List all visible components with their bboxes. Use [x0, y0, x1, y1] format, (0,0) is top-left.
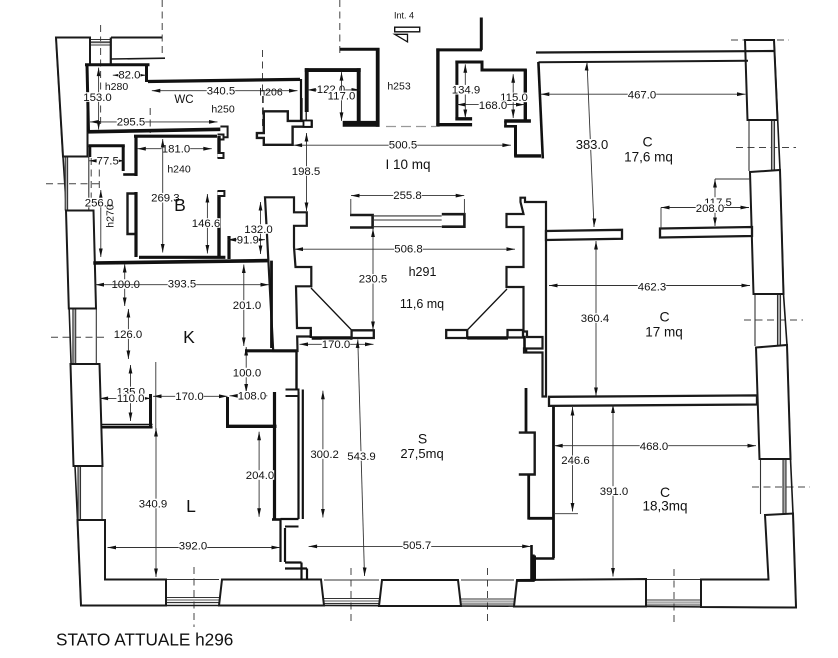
- extension line 246.6 bottom: [554, 513, 578, 515]
- dim 462.3: [549, 285, 750, 287]
- wall hall bottom right box B: [508, 330, 524, 338]
- window top WT1: [89, 41, 112, 43]
- vestibule bottom bar left: [455, 117, 472, 120]
- dim 393.5: [96, 284, 270, 286]
- svg-text:91.9: 91.9: [237, 234, 259, 246]
- axis dashed horizontal right y=487: [752, 486, 810, 488]
- wall K top: [93, 261, 268, 263]
- extension 255.8 left: [350, 199, 352, 215]
- dim 300.2: [322, 391, 324, 518]
- step to C17.6 vertical a: [504, 121, 507, 128]
- window right WR1: [748, 120, 750, 171]
- svg-text:L: L: [186, 496, 196, 516]
- wall L/S top bracket: [286, 390, 299, 397]
- wall B right top foot: [218, 191, 225, 196]
- axis dashed vertical x=150: [149, 108, 151, 133]
- dim 126.0: [127, 309, 129, 359]
- wall hall/S step vertical: [523, 336, 526, 349]
- dim 295.5: [90, 121, 218, 123]
- outer wall pillar top-right PR1: [745, 40, 778, 120]
- dim 543.9: [358, 340, 365, 577]
- jamb B top-right notch: [218, 135, 224, 140]
- window bottom W5: [324, 600, 379, 602]
- wall C17/C18.3: [549, 395, 757, 406]
- dim 340.9: [155, 428, 157, 577]
- wall K/hall bottom: [245, 349, 297, 352]
- svg-text:246.6: 246.6: [561, 455, 590, 467]
- jamb B top-right bar: [217, 136, 220, 158]
- outer wall pillar right PR2: [750, 170, 784, 294]
- svg-text:h240: h240: [167, 163, 191, 175]
- outer wall bottom pillar P7: [514, 579, 646, 607]
- entry porch left top bar: [340, 48, 380, 51]
- axis dashed vertical bottom x=194: [193, 567, 195, 627]
- jamb WC corridor end: [257, 111, 312, 145]
- wall h280 left: [87, 65, 89, 132]
- svg-text:181.0: 181.0: [162, 143, 191, 155]
- hall partition glazing lines: [373, 215, 442, 217]
- wall L top-left: [101, 424, 153, 426]
- dim 467.0: [541, 93, 746, 95]
- svg-text:153.0: 153.0: [83, 92, 112, 104]
- wall WC bottom jamb foot: [220, 127, 227, 138]
- window bottom W4: [166, 599, 219, 601]
- dim 383.0: [587, 62, 594, 227]
- svg-text:204.0: 204.0: [246, 470, 275, 482]
- axis dashed vertical top-left x=100: [100, 25, 102, 125]
- svg-text:C: C: [659, 309, 669, 325]
- svg-text:467.0: 467.0: [628, 89, 657, 101]
- svg-text:h253: h253: [387, 80, 411, 92]
- svg-text:295.5: 295.5: [117, 116, 146, 128]
- wall B left upper: [134, 137, 137, 176]
- dim 340.5: [152, 90, 298, 92]
- dim 108.0: [230, 395, 268, 397]
- wall C18.3 left jog: [534, 557, 555, 559]
- dim 468.0: [554, 445, 756, 447]
- svg-text:170.0: 170.0: [175, 391, 204, 403]
- svg-text:392.0: 392.0: [179, 541, 208, 553]
- axis dashed vertical closet b: [98, 158, 100, 192]
- axis dashed horizontal top-right y=40: [731, 39, 789, 41]
- wall L right: [273, 392, 276, 519]
- dim 256.0: [100, 190, 102, 257]
- outer wall corner bottom-right P8: [701, 514, 796, 608]
- svg-text:108.0: 108.0: [238, 391, 267, 403]
- window right WR3: [760, 459, 762, 514]
- svg-text:B: B: [174, 195, 186, 215]
- central wall hall-west: [265, 197, 311, 351]
- svg-text:h280: h280: [105, 81, 129, 93]
- dim 255.8: [351, 195, 464, 197]
- wall L/S part1: [297, 392, 299, 519]
- window left W3: [101, 466, 103, 520]
- vestibule bottom bar right: [504, 119, 531, 122]
- outer wall pillar right PR3: [756, 345, 791, 459]
- dim 91.9: [228, 239, 265, 241]
- wall S top-left segment: [312, 336, 353, 339]
- extension 255.8 right: [463, 199, 465, 214]
- window left W2: [95, 309, 97, 365]
- outer wall top band C17.6: [536, 51, 775, 53]
- svg-text:126.0: 126.0: [114, 329, 143, 341]
- wall L/S jog left: [281, 518, 299, 520]
- closet 77.5 top: [89, 144, 125, 147]
- svg-text:I 10 mq: I 10 mq: [385, 157, 430, 172]
- outer boundary right edge: [774, 40, 796, 608]
- svg-text:543.9: 543.9: [347, 451, 376, 463]
- svg-text:C: C: [642, 133, 652, 149]
- wall B left lower: [134, 192, 137, 257]
- svg-text:77.5: 77.5: [97, 156, 119, 168]
- hall partition pier right: [442, 214, 465, 227]
- svg-text:82.0: 82.0: [118, 69, 140, 81]
- svg-text:h291: h291: [409, 265, 437, 279]
- svg-text:11,6 mq: 11,6 mq: [400, 297, 444, 311]
- dim 269.3: [162, 139, 164, 253]
- svg-text:STATO ATTUALE h296: STATO ATTUALE h296: [56, 630, 233, 650]
- wall B top: [134, 135, 217, 138]
- wall L top-right: [226, 425, 277, 428]
- svg-text:393.5: 393.5: [168, 278, 197, 290]
- axis dashed vertical bottom x=351: [350, 568, 352, 623]
- svg-text:K: K: [183, 327, 195, 347]
- wall C17.6/C17 left segment: [546, 230, 622, 240]
- svg-text:506.8: 506.8: [394, 244, 423, 256]
- wall S right foot: [529, 517, 554, 520]
- svg-text:S: S: [418, 431, 427, 447]
- dim 82.0: [113, 74, 146, 76]
- dim 230.5: [372, 229, 374, 331]
- entry left jamb lower thin lines: [301, 98, 303, 121]
- wall S top stub box: [352, 330, 374, 338]
- entry porch right bottom bar: [436, 123, 472, 126]
- svg-text:505.7: 505.7: [403, 540, 432, 552]
- h206 door jamb line: [300, 79, 302, 121]
- dim 168.0: [457, 104, 525, 106]
- dim 117.5: [714, 179, 716, 226]
- window bottom W7: [646, 601, 701, 603]
- wall h280 right / WC left jamb: [145, 66, 148, 83]
- dim 135.0: [130, 365, 132, 421]
- axis dashed vertical closet a: [90, 158, 92, 200]
- wall L top-right bracket vertical: [226, 397, 229, 426]
- axis dashed vertical porch x=340: [339, 0, 341, 54]
- axis dashed horizontal left y=184: [46, 183, 102, 185]
- svg-text:WC: WC: [174, 94, 193, 106]
- wall hall bottom right box A: [446, 330, 467, 338]
- svg-text:27,5mq: 27,5mq: [400, 446, 443, 461]
- outer wall pillar top-left P1: [56, 38, 90, 157]
- svg-text:198.5: 198.5: [292, 166, 321, 178]
- svg-text:Int. 4: Int. 4: [394, 10, 414, 20]
- svg-text:18,3mq: 18,3mq: [642, 498, 687, 513]
- closet 77.5 left: [89, 146, 92, 157]
- svg-text:208.0: 208.0: [696, 203, 725, 215]
- dim 208.0: [661, 207, 749, 209]
- extension 117.5 top: [715, 178, 750, 180]
- wall L/S part3: [285, 561, 302, 563]
- wall S top-right segment: [467, 336, 508, 339]
- svg-text:h270: h270: [104, 204, 116, 228]
- wall S bottom-right stub: [530, 545, 533, 581]
- wall L right bottom step: [272, 518, 281, 521]
- dim 110.0: [100, 397, 151, 399]
- svg-text:360.4: 360.4: [581, 313, 610, 325]
- jamb B top-right foot: [218, 153, 224, 158]
- svg-text:391.0: 391.0: [600, 486, 629, 498]
- outer wall top band: [111, 37, 162, 39]
- svg-text:100.0: 100.0: [233, 367, 262, 379]
- window top WT1 jambs: [87, 38, 89, 65]
- outer wall pillar left P2: [66, 211, 96, 309]
- symbol Int.4 triangle: [395, 34, 408, 42]
- axis dashed horizontal right y=320: [744, 319, 803, 321]
- svg-text:168.0: 168.0: [479, 100, 508, 112]
- wall S right lower: [527, 475, 530, 520]
- wall S right upper: [525, 349, 528, 353]
- wall WC bottom: [88, 129, 220, 132]
- axis dashed vertical h206 x=262: [262, 50, 264, 130]
- wall B right: [217, 191, 220, 257]
- dim 204.0: [258, 432, 260, 517]
- outer wall bottom pillar P5: [219, 580, 324, 606]
- closet 77.5 step to B wall: [123, 173, 137, 176]
- svg-text:340.5: 340.5: [207, 85, 236, 97]
- threshold dashed h253: [386, 126, 436, 128]
- svg-text:500.5: 500.5: [389, 140, 418, 152]
- svg-text:462.3: 462.3: [638, 281, 667, 293]
- extension 208.0 left: [660, 208, 662, 229]
- axis dashed horizontal left y=337: [51, 336, 105, 338]
- dim 77.5: [89, 160, 124, 162]
- dim 391.0: [612, 405, 614, 577]
- svg-text:201.0: 201.0: [233, 300, 262, 312]
- dim 360.4: [595, 241, 597, 396]
- wall B bottom: [139, 256, 225, 259]
- axis dashed vertical below WC jamb: [262, 96, 264, 110]
- pier S right chimney: [519, 433, 535, 475]
- axis dashed vertical bottom x=674: [673, 569, 675, 626]
- outer boundary bottom edge: [81, 606, 796, 608]
- wall WC top: [148, 79, 300, 81]
- wall C17.6 left: [538, 62, 542, 158]
- vestibule right bar: [524, 70, 527, 123]
- vestibule step vertical: [481, 62, 484, 72]
- svg-text:146.6: 146.6: [192, 218, 221, 230]
- dim 181.0: [137, 148, 212, 150]
- dim 170.0 K-L door: [153, 395, 228, 397]
- step to C17.6 horizontal b: [514, 154, 541, 157]
- dim 146.6: [206, 194, 208, 254]
- window right WR2: [754, 294, 756, 346]
- svg-text:340.9: 340.9: [139, 498, 168, 510]
- wall joint hall-SW vertical: [310, 330, 312, 338]
- wall h280 top: [85, 63, 150, 66]
- entry porch right top bar: [436, 48, 482, 51]
- dim 122.0: [307, 89, 360, 91]
- dim 170.0 hall-S: [300, 343, 374, 345]
- dim 246.6: [572, 407, 574, 512]
- svg-text:300.2: 300.2: [310, 449, 339, 461]
- wall K right: [270, 261, 273, 348]
- svg-text:h206: h206: [259, 86, 283, 98]
- boundary bar above porch: [480, 18, 483, 50]
- dim 115.0: [512, 74, 514, 118]
- vestibule top bar A: [455, 61, 483, 64]
- svg-text:17,6 mq: 17,6 mq: [624, 149, 673, 164]
- entry porch left right bar: [376, 48, 380, 127]
- vestibule left bar: [455, 61, 458, 121]
- wall stub 91.9 door: [227, 236, 230, 259]
- svg-text:468.0: 468.0: [640, 441, 669, 453]
- dim 100.0 K vertical: [124, 264, 126, 306]
- svg-text:h250: h250: [211, 103, 235, 115]
- svg-text:17 mq: 17 mq: [645, 324, 683, 339]
- outer wall corner bottom-left P4: [78, 520, 167, 606]
- dim 134.9: [464, 64, 466, 118]
- svg-text:255.8: 255.8: [393, 190, 422, 202]
- axis dashed horizontal right y=147: [736, 147, 796, 149]
- dim 201.0: [243, 265, 245, 347]
- step to C17.6 vertical b: [514, 126, 517, 157]
- svg-text:170.0: 170.0: [322, 339, 351, 351]
- niche bracket left of B: [128, 194, 138, 235]
- dim 500.5: [294, 144, 511, 146]
- step to C17.6 horizontal a: [504, 125, 517, 128]
- central wall hall-east: [507, 198, 547, 397]
- extension 340.9 up: [155, 362, 157, 430]
- svg-text:110.0: 110.0: [117, 393, 145, 405]
- dim 117.0: [341, 72, 343, 121]
- entry left jamb bottom bar: [343, 121, 380, 127]
- entry left jamb U-shape: [305, 68, 309, 112]
- dim 392.0: [108, 547, 281, 549]
- hall door diagonal left: [311, 288, 352, 330]
- svg-text:117.0: 117.0: [328, 90, 356, 102]
- svg-text:383.0: 383.0: [576, 137, 609, 152]
- dim 505.7: [309, 545, 531, 547]
- entry porch right left bar: [436, 48, 439, 126]
- hall door diagonal right: [468, 289, 507, 330]
- wall joint above L/S: [295, 352, 297, 390]
- window left W1: [88, 157, 90, 211]
- wall C18.3 left upper: [552, 404, 555, 558]
- outer boundary left edge: [56, 38, 81, 606]
- axis dashed vertical bottom x=487: [487, 568, 489, 625]
- dim 132.0: [260, 202, 262, 254]
- wall C17.6/C17 right segment: [660, 227, 752, 238]
- entry left jamb foot: [304, 121, 312, 127]
- dim 153.0: [98, 68, 100, 130]
- wall L top-left bracket vertical: [149, 394, 152, 427]
- outer wall bottom pillar P6: [379, 580, 461, 606]
- dim 100.0 K right: [245, 347, 247, 393]
- closet 77.5 right: [122, 146, 125, 171]
- window bottom W6: [461, 600, 514, 602]
- vestibule top bar B: [482, 69, 527, 72]
- dim 198.5: [306, 133, 308, 211]
- window bottom inner face lines: [166, 579, 219, 581]
- wall S right: [525, 388, 528, 432]
- svg-text:230.5: 230.5: [359, 274, 388, 286]
- symbol Int.4 bar: [395, 27, 420, 32]
- axis dashed vertical top x=162: [161, 0, 163, 55]
- dim 506.8: [295, 248, 516, 250]
- hall partition pier left: [350, 215, 373, 228]
- svg-text:134.9: 134.9: [452, 84, 481, 96]
- outer wall pillar left P3: [71, 364, 103, 466]
